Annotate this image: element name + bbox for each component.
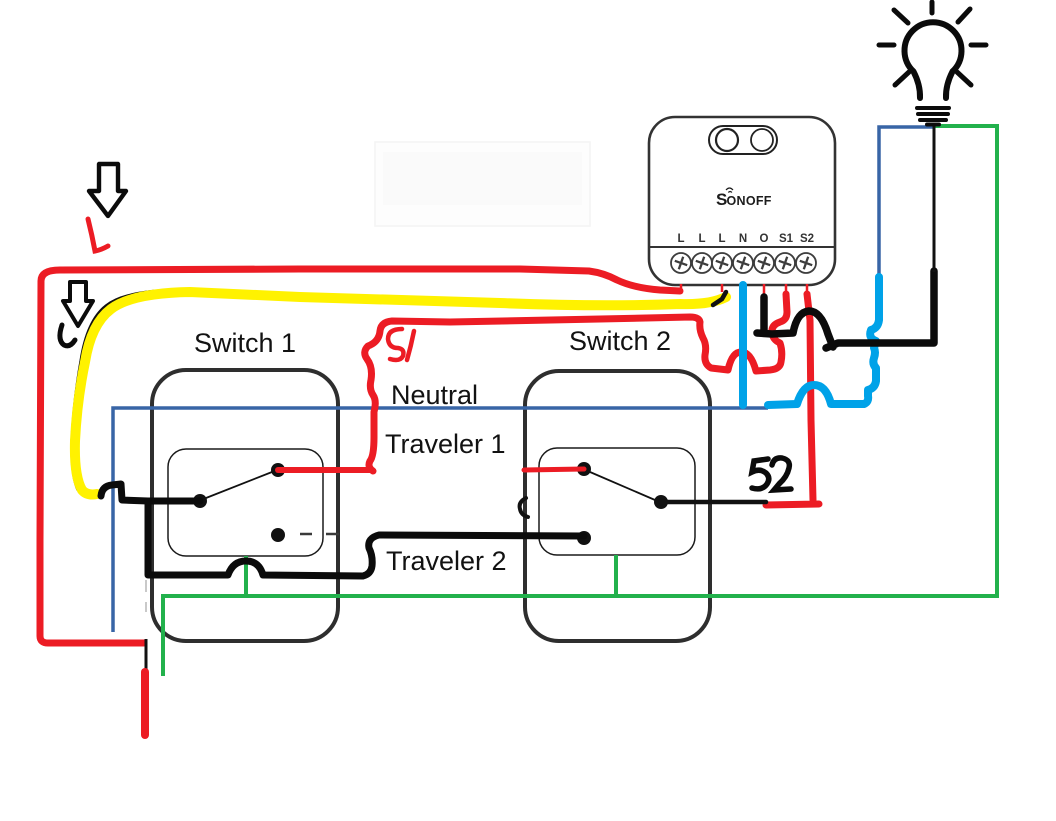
line feed wire (red marker) L terminal to bottom-left bbox=[40, 269, 680, 643]
SW2 ground branch wire bbox=[614, 555, 618, 596]
lamp neutral drop wire (blue) bbox=[879, 127, 933, 281]
line tail connector (black) bbox=[145, 639, 148, 673]
svg-text:L: L bbox=[718, 233, 725, 245]
svg-text:Traveler 2: Traveler 2 bbox=[386, 546, 507, 576]
erased line remnant dashes bbox=[145, 580, 147, 612]
switch SW1 lever bbox=[206, 472, 272, 498]
hot jumper wire (black marker) into SW1 common bbox=[101, 484, 200, 501]
neutral link wire (cyan marker) from bus to lamp drop bbox=[768, 277, 879, 405]
lamp output wire thin segment to lamp bbox=[933, 124, 936, 272]
switch SW1 inner plate bbox=[168, 449, 323, 556]
ground/earth wire (green) bbox=[163, 126, 997, 676]
annotation S1 (red handwriting) bbox=[388, 329, 414, 360]
sonoff U1 terminal separator bbox=[650, 246, 834, 248]
erased wire remnant at SW2 edge bbox=[520, 498, 528, 517]
annotation S2 (black handwriting) bbox=[752, 458, 791, 490]
svg-text:L: L bbox=[698, 233, 705, 245]
annotation red L mark bbox=[88, 219, 108, 251]
sonoff U1 logo bbox=[716, 188, 772, 209]
lamp globe bbox=[904, 22, 961, 98]
svg-text:L: L bbox=[677, 233, 684, 245]
annotation arrow 2 bbox=[63, 282, 93, 326]
neutral bus wire (blue) bbox=[113, 408, 768, 632]
traveler 1 wire left (red) to SW1 contact bbox=[278, 467, 372, 473]
terminal stub L3 bbox=[721, 284, 724, 292]
svg-text:Neutral: Neutral bbox=[391, 380, 478, 410]
sonoff U1 button left bbox=[716, 129, 738, 151]
switch SW1 outer box bbox=[152, 370, 338, 641]
switch SW2 contact traveler2 bbox=[577, 531, 591, 545]
sonoff U1 pin labels L L L N O S1 S2 bbox=[677, 233, 814, 245]
svg-text:ONOFF: ONOFF bbox=[727, 194, 772, 208]
SW1 ground branch wire bbox=[244, 556, 248, 597]
lamp base threads bbox=[917, 108, 949, 125]
terminal stub O bbox=[763, 284, 766, 297]
switch SW1 contact common bbox=[193, 494, 207, 508]
hot wire black core under yellow bbox=[72, 290, 722, 490]
terminal stub S2 bbox=[806, 284, 809, 294]
neutral wire (cyan marker) from sonoff N down to neutral bus bbox=[739, 285, 747, 405]
annotation check mark (black) bbox=[60, 325, 75, 346]
traveler 2 wire (black marker) SW1 to SW2 bbox=[148, 501, 584, 576]
sonoff U1 button right bbox=[751, 129, 773, 151]
hot wire black tip at L3 bbox=[713, 292, 726, 305]
S1 wire (red marker) from sonoff S1 to SW1 traveler1 contact bbox=[365, 294, 787, 471]
erased dashes near SW1 traveler2 contact bbox=[300, 533, 339, 536]
svg-text:O: O bbox=[760, 233, 769, 245]
switch SW1 contact traveler2 bbox=[271, 528, 285, 542]
sonoff module U1 body bbox=[649, 117, 835, 285]
switch SW2 contact traveler1 bbox=[577, 462, 591, 476]
terminal stub L1 bbox=[680, 284, 683, 294]
svg-text:S2: S2 bbox=[800, 233, 814, 245]
line tail wire (red marker) bbox=[141, 672, 149, 735]
terminal stub S1 bbox=[785, 284, 788, 295]
switch SW1 contact traveler1 bbox=[271, 463, 285, 477]
annotation arrow 1 (top) bbox=[89, 164, 126, 216]
svg-text:Switch 1: Switch 1 bbox=[194, 328, 296, 358]
lamp output wire (black marker) from sonoff O over S2 to lamp bbox=[757, 271, 934, 348]
svg-text:Traveler 1: Traveler 1 bbox=[385, 429, 506, 459]
S2 wire (red marker) from sonoff S2 down bbox=[766, 294, 819, 505]
switch SW2 inner plate bbox=[539, 448, 695, 555]
svg-text:S1: S1 bbox=[779, 233, 794, 245]
switch SW2 contact common bbox=[654, 495, 668, 509]
erased area remnant bbox=[375, 142, 590, 226]
SW2 common to S2 wire (black) bbox=[661, 500, 766, 505]
svg-text:N: N bbox=[739, 233, 747, 245]
hot wire (yellow marker) L3 terminal to SW1 bbox=[75, 292, 726, 495]
switch SW2 outer box bbox=[525, 371, 710, 641]
svg-text:Switch 2: Switch 2 bbox=[569, 326, 671, 356]
switch SW2 lever bbox=[590, 472, 655, 500]
lamp LP1 bbox=[879, 2, 986, 125]
traveler 1 wire right (red) to SW2 contact bbox=[524, 469, 584, 470]
lamp rays bbox=[879, 2, 986, 85]
sonoff U1 button pill bbox=[709, 126, 777, 154]
sonoff U1 screw terminals bbox=[671, 253, 816, 273]
